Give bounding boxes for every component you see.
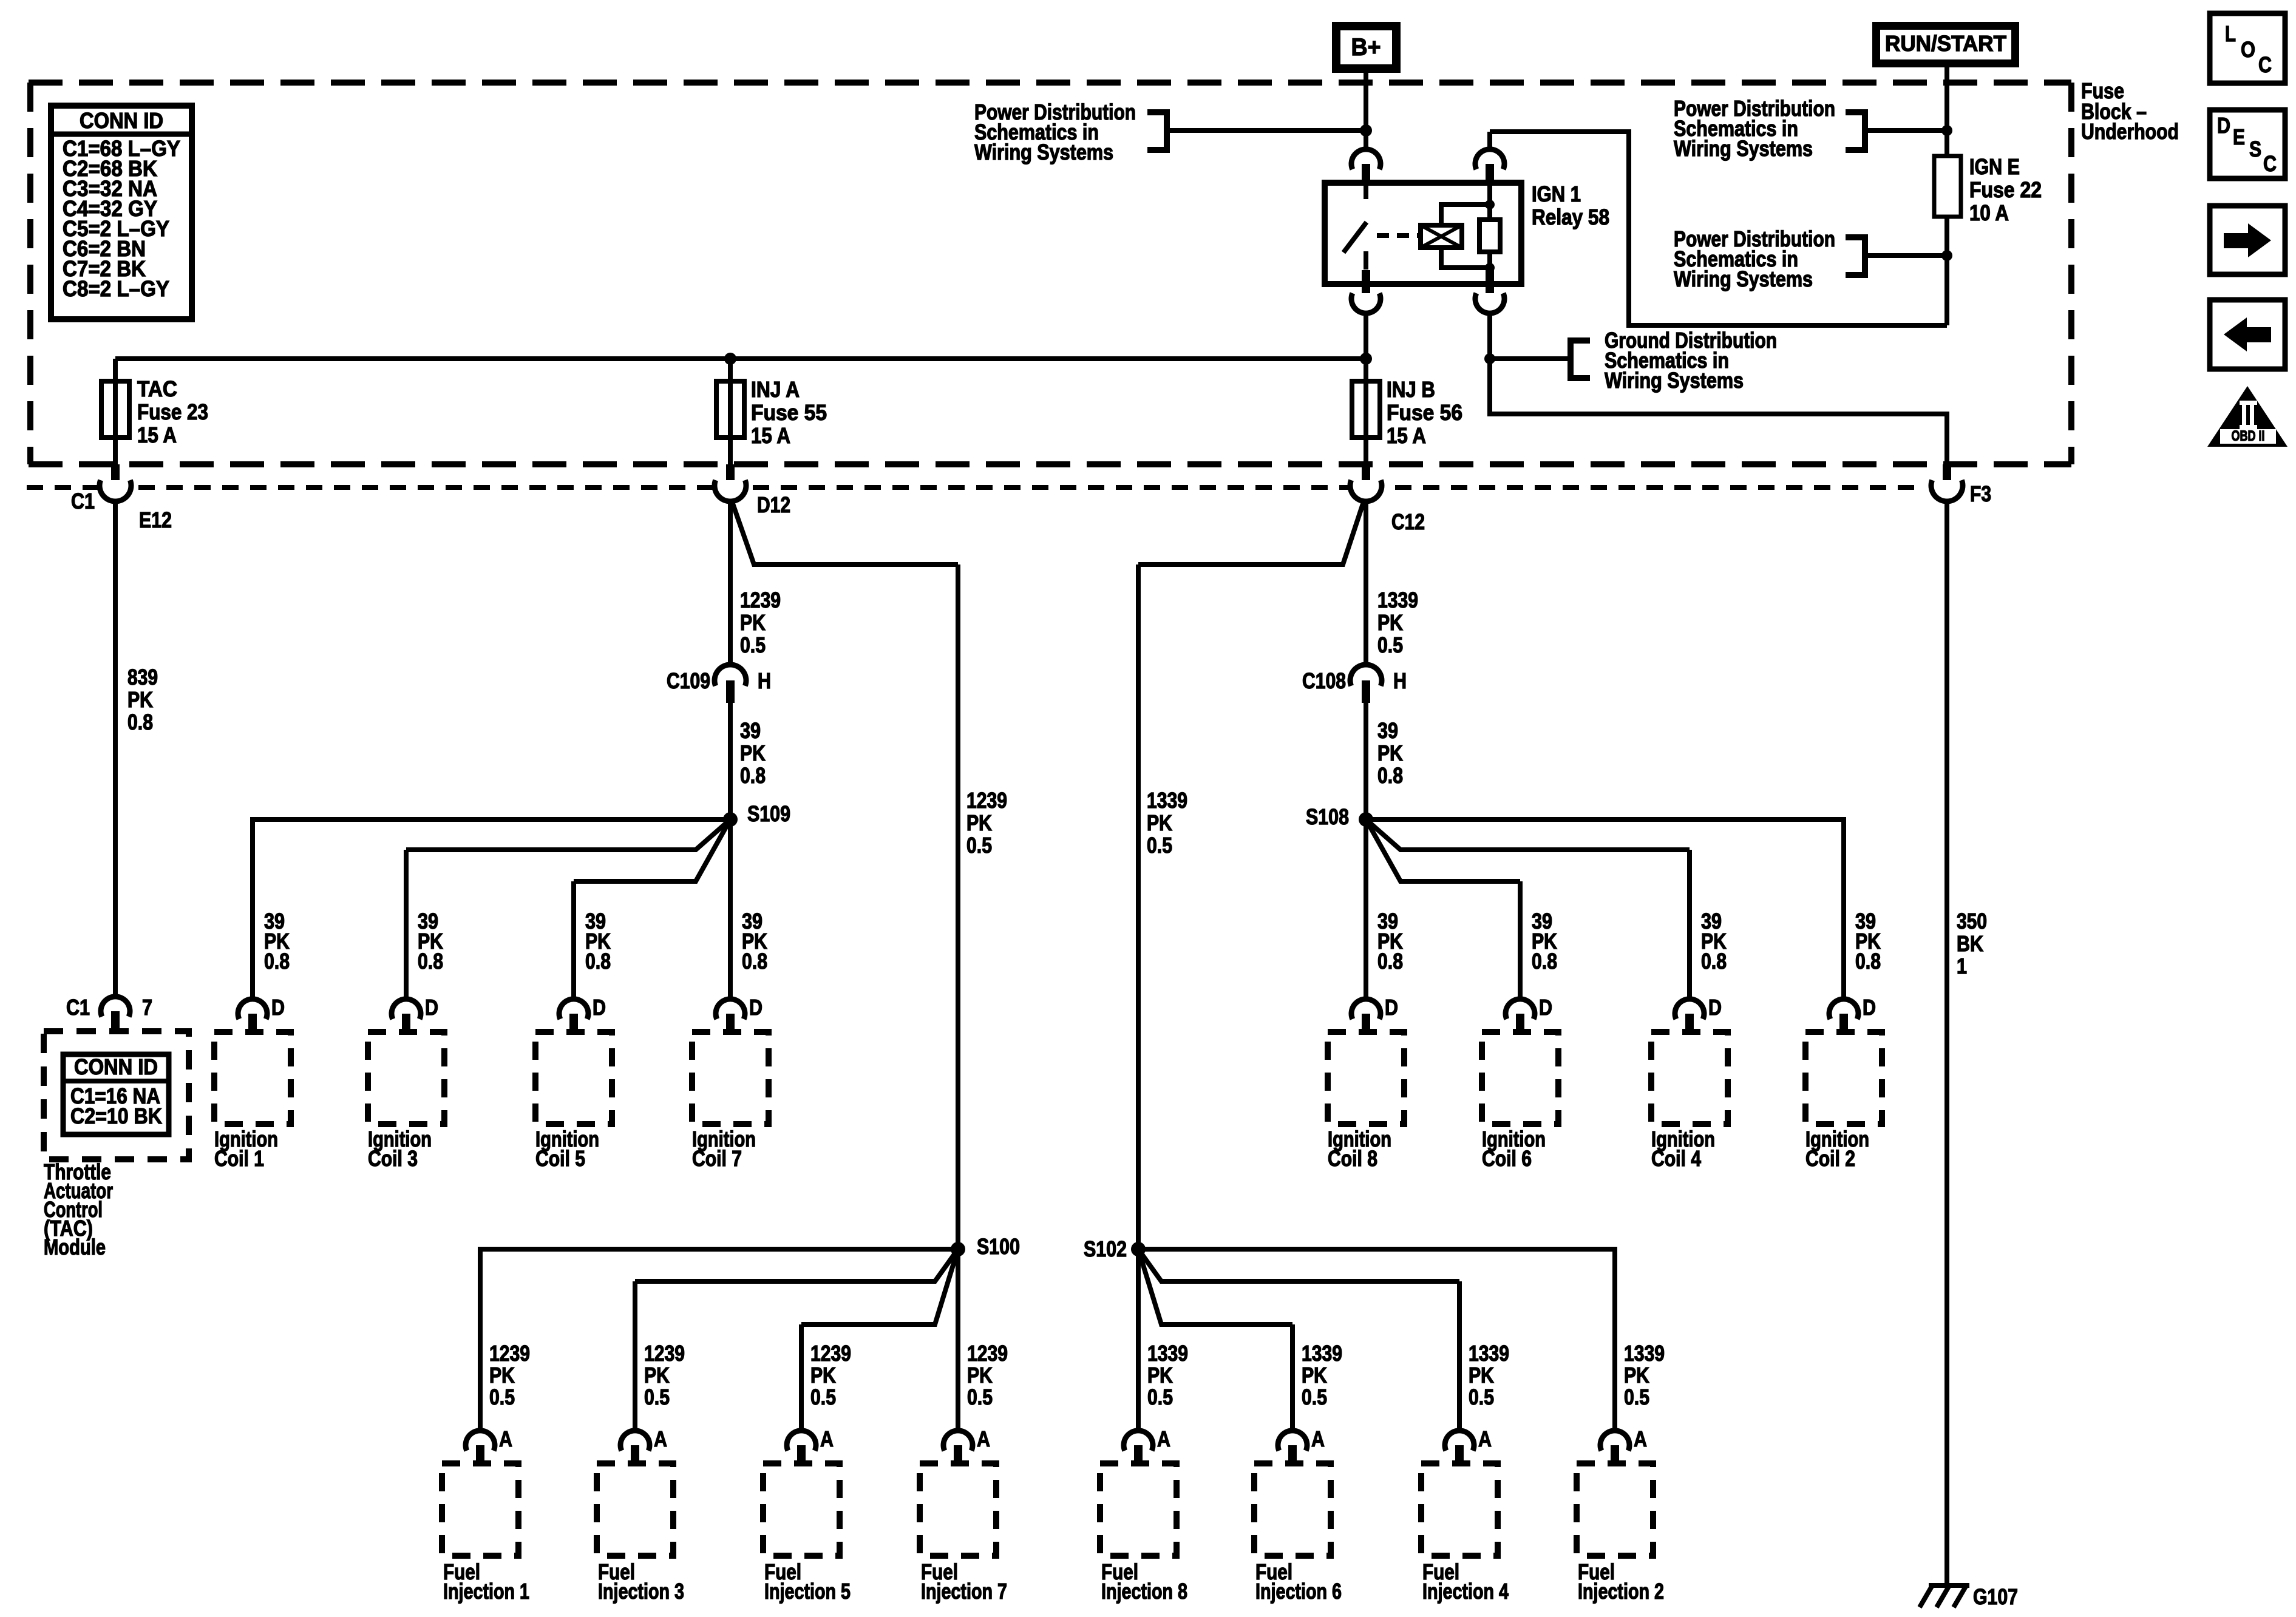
wire: coil parallel connection top [1441,205,1490,225]
svg-text:C1: C1 [66,995,90,1020]
svg-text:Coil 3: Coil 3 [368,1146,418,1171]
connector E12 (C1) at fuse block [111,464,120,486]
ignition coil 7 box [692,1032,769,1124]
label Fuel Injection 1 [443,1559,529,1604]
svg-text:15 A: 15 A [1387,423,1426,448]
connector pin D ignition coil 1 [238,995,285,1033]
ignition coil 2 box [1805,1032,1882,1124]
connector pin A fuel injection 2 [1600,1426,1647,1465]
label Ignition Coil 5 [535,1127,599,1171]
svg-text:Wiring Systems: Wiring Systems [1674,136,1813,161]
ignition coil 3 box [368,1032,444,1124]
splice S100 [951,1242,965,1256]
svg-text:1339: 1339 [1302,1341,1342,1366]
svg-text:0.5: 0.5 [1377,632,1403,657]
CONN ID table (fuse block connectors) [51,106,192,319]
wire: IGN E output loop to relay coil (pin 86) [1490,132,1947,325]
label wire 39 PK 0.8 (ignition coil 7) [742,909,767,974]
svg-text:Fuse 22: Fuse 22 [1969,177,2042,202]
svg-text:G107: G107 [1973,1584,2018,1609]
wire: to ground distribution bracket [1490,356,1571,361]
svg-text:0.5: 0.5 [966,833,992,858]
svg-text:1239: 1239 [644,1341,685,1366]
svg-text:S102: S102 [1084,1236,1127,1261]
svg-text:C12: C12 [1391,509,1425,534]
dotted in-line connector boundary (E12/D12/C12/F3 row) [27,485,1923,490]
connector D12 at fuse block [726,464,735,486]
svg-text:Fuse 23: Fuse 23 [137,399,208,424]
svg-text:Injection 3: Injection 3 [598,1579,684,1604]
wire 1239 PK 0.5 from D12 down to C109 [728,500,733,665]
svg-text:H: H [1393,668,1407,693]
wire: TAC fuse drop [113,359,118,464]
fuel injection 6 box [1254,1463,1331,1556]
ignition coil 8 box [1328,1032,1404,1124]
label wire 39 PK 0.8 (ignition coil 1) [264,909,290,974]
connector pin D ignition coil 4 [1675,995,1722,1033]
label wire 39 PK 0.8 (ignition coil 3) [418,909,443,974]
ignition coil 5 box [535,1032,612,1124]
label wire 39 PK 0.8 (ignition coil 2) [1855,909,1881,974]
connector pin A fuel injection 6 [1278,1426,1325,1465]
svg-text:0.5: 0.5 [810,1385,836,1409]
wire 1339 PK 0.5 from C12 down to C108 [1364,500,1368,665]
svg-text:0.8: 0.8 [1701,949,1727,974]
svg-text:Injection 5: Injection 5 [764,1579,851,1604]
svg-text:Coil 7: Coil 7 [692,1146,742,1171]
svg-text:C1: C1 [71,489,95,514]
label IGN 1 Relay 58 [1532,181,1609,229]
wire: relay coil ground side down [1487,313,1492,359]
off-page reference bracket: Power Distribution (mid right) [1846,237,1865,275]
svg-text:0.8: 0.8 [264,949,290,974]
icon OBD II triangle [2207,386,2288,447]
label wire 1339 PK 0.5 (S102 feed) [1147,788,1187,858]
wire: S109 branch to ignition coil 7 [728,819,733,999]
connector pin A fuel injection 4 [1445,1426,1492,1465]
label wire 39 PK 0.8 (below C108) [1377,718,1403,788]
svg-text:D: D [1708,995,1722,1020]
label Power Distribution Schematics in Wiring Systems (left) [974,100,1136,164]
fuse IGN E Fuse 22 10 A [1934,156,1961,217]
wire: B+ feed down to relay [1364,73,1368,149]
svg-text:C109: C109 [667,668,710,693]
svg-text:1339: 1339 [1469,1341,1509,1366]
svg-text:0.8: 0.8 [1855,949,1881,974]
svg-text:1: 1 [1957,954,1967,978]
svg-text:1239: 1239 [740,588,781,612]
wire 1339 PK 0.5 from C12 to S102 [1138,502,1364,564]
wire: S108 branch to ignition coil 8 [1364,819,1368,999]
relay actuation dashed link [1377,233,1419,238]
svg-text:BK: BK [1957,931,1983,956]
svg-text:A: A [654,1426,667,1451]
svg-text:D: D [1539,995,1552,1020]
label wire 1239 PK 0.5 (S100 feed) [966,788,1007,858]
svg-text:0.5: 0.5 [1469,1385,1494,1409]
label wire 1339 PK 0.5 (fuel injection 2) [1624,1341,1665,1409]
svg-text:Wiring Systems: Wiring Systems [1605,368,1744,393]
svg-text:PK: PK [1377,610,1403,635]
label wire 39 PK 0.8 (ignition coil 6) [1532,909,1557,974]
label TAC Fuse 23 15 A [137,376,208,447]
svg-text:Coil 8: Coil 8 [1328,1146,1377,1171]
svg-text:Module: Module [44,1235,106,1259]
off-page reference bracket: Power Distribution (upper right) [1846,112,1865,150]
off-page reference bracket: Power Distribution (left) [1147,112,1167,150]
wire: S108 branch to ignition coil 4 [1366,819,1690,850]
wire 350 BK 1 from F3 to G107 [1944,500,1949,1585]
svg-text:Fuse 56: Fuse 56 [1387,400,1462,425]
svg-text:PK: PK [1147,810,1172,835]
svg-text:350: 350 [1957,909,1987,934]
relay IGN 1 Relay 58 box [1325,183,1521,284]
svg-text:0.8: 0.8 [740,763,766,788]
svg-text:15 A: 15 A [137,422,177,447]
wire: S109 branch to ignition coil 1 [253,819,730,999]
label Power Distribution Schematics in Wiring Systems (upper right) [1674,96,1835,161]
svg-text:PK: PK [810,1363,836,1388]
svg-text:PK: PK [1302,1363,1327,1388]
node: coil/resistor top junction [1485,200,1495,209]
connector pin A fuel injection 8 [1124,1426,1170,1465]
wire: S109 branch to ignition coil 3 [406,819,730,850]
relay coil symbol (box with X) [1421,225,1462,248]
label Ignition Coil 3 [368,1127,432,1171]
connector C108 pin H [1350,665,1382,686]
label Fuse Block - Underhood [2081,78,2179,144]
svg-text:D: D [271,995,285,1020]
fuel injection 3 box [597,1463,673,1556]
svg-text:Coil 2: Coil 2 [1805,1146,1855,1171]
fuel injection 5 box [763,1463,840,1556]
fuel injection 2 box [1577,1463,1653,1556]
CONN ID table (TAC module) [63,1054,169,1134]
relay pin 87 terminal (bottom left) [1362,270,1370,299]
relay switch contact (fixed, bottom) [1364,251,1368,269]
label Fuel Injection 2 [1578,1559,1664,1604]
svg-text:IGN E: IGN E [1969,154,2020,179]
svg-text:PK: PK [740,741,766,765]
svg-text:15 A: 15 A [751,423,790,448]
svg-text:A: A [1634,1426,1647,1451]
svg-text:Coil 5: Coil 5 [535,1146,585,1171]
svg-text:0.8: 0.8 [1532,949,1557,974]
svg-text:C108: C108 [1302,668,1346,693]
svg-text:0.8: 0.8 [1377,763,1403,788]
label Ground Distribution Schematics in Wiring Systems [1605,328,1777,393]
wire: S100 branch to fuel injection 3 [635,1249,958,1281]
svg-text:1339: 1339 [1147,788,1187,813]
wire: relay ground side over to F3 [1490,359,1947,466]
svg-text:PK: PK [127,687,153,712]
svg-text:INJ B: INJ B [1387,377,1435,402]
label Fuel Injection 4 [1422,1559,1509,1604]
wire 1239 PK 0.5 from D12 to S100 [732,502,958,564]
relay pin 30 terminal (top left) [1351,149,1381,169]
relay pin 86 terminal (top right) [1475,149,1504,169]
svg-text:10 A: 10 A [1969,200,2009,225]
svg-text:0.8: 0.8 [1377,949,1403,974]
label wire 1339 PK 0.5 (fuel injection 6) [1302,1341,1342,1409]
relay pin 85 terminal (bottom right) [1486,270,1494,299]
node: bus junction at INJ B [1360,353,1372,365]
svg-text:0.5: 0.5 [1147,1385,1173,1409]
node: junction B+ / power distribution [1360,124,1372,137]
node: junction ground distribution [1484,353,1495,364]
label IGN E Fuse 22 10 A [1969,154,2042,225]
svg-text:0.5: 0.5 [1147,833,1172,858]
wire: power distribution (mid right) to IGN E output [1865,253,1947,258]
fuse TAC Fuse 23 15 A [101,381,129,438]
ignition coil 6 box [1482,1032,1558,1124]
svg-text:1339: 1339 [1377,588,1418,612]
connector pin D ignition coil 6 [1506,995,1552,1033]
svg-text:7: 7 [142,995,152,1020]
svg-text:Relay 58: Relay 58 [1532,205,1609,229]
svg-text:Injection 1: Injection 1 [443,1579,529,1604]
wire: S102 branch to fuel injection 4 [1138,1249,1459,1281]
label Fuel Injection 7 [921,1559,1007,1604]
svg-text:PK: PK [644,1363,670,1388]
label Power Distribution Schematics in Wiring Systems (mid right) [1674,226,1835,291]
label wire 1239 PK 0.5 (fuel injection 7) [967,1341,1008,1409]
svg-text:O: O [2241,37,2255,62]
splice S102 [1131,1242,1146,1256]
label wire 1339 PK 0.5 (fuel injection 8) [1147,1341,1188,1409]
svg-text:1239: 1239 [967,1341,1008,1366]
relay switch blade [1343,222,1367,253]
ignition coil 1 box [214,1032,291,1124]
wire: INJ B fuse drop [1364,359,1368,464]
svg-text:CONN ID: CONN ID [74,1054,158,1079]
svg-text:Fuse 55: Fuse 55 [751,400,827,425]
TAC module dashed box [44,1031,189,1159]
connector C1 pin 7 at TAC module [101,997,130,1017]
icon forward arrow box [2210,206,2285,274]
wire: S100 branch to fuel injection 1 [480,1249,958,1431]
svg-text:0.8: 0.8 [127,710,153,734]
power symbol RUN/START [1872,22,2019,67]
fuse INJ A Fuse 55 15 A [716,381,744,438]
node: coil/resistor bottom junction [1485,263,1495,273]
wire: S102 branch to fuel injection 2 [1138,1249,1615,1431]
svg-text:D: D [1863,995,1876,1020]
svg-text:839: 839 [127,665,158,690]
label wire 1339 PK 0.5 (below C12) [1377,588,1418,657]
svg-text:Injection 7: Injection 7 [921,1579,1007,1604]
node: junction RUN/START / power distribution upper [1941,125,1952,136]
label wire 39 PK 0.8 (ignition coil 8) [1377,909,1403,974]
wire: S100 branch to fuel injection 7 [956,1249,960,1431]
label wire 1239 PK 0.5 (fuel injection 3) [644,1341,685,1409]
svg-text:A: A [1478,1426,1492,1451]
svg-text:D: D [1385,995,1398,1020]
fuel injection 7 box [920,1463,996,1556]
wire: power distribution (upper right) to RUN/START wire [1865,128,1947,133]
wire: relay switch output down to fuse bus [1364,313,1368,359]
svg-text:C2=10 BK: C2=10 BK [70,1103,162,1128]
svg-text:A: A [1157,1426,1170,1451]
svg-text:E12: E12 [139,507,172,532]
relay resistor element [1487,183,1492,220]
label Ignition Coil 1 [214,1127,278,1171]
svg-text:0.8: 0.8 [742,949,767,974]
label Ignition Coil 2 [1805,1127,1869,1171]
connector F3 at fuse block [1943,464,1951,486]
svg-text:A: A [1311,1426,1325,1451]
svg-text:S: S [2249,137,2261,161]
svg-text:OBD II: OBD II [2232,428,2265,444]
label wire 39 PK 0.8 (below C109) [740,718,766,788]
connector pin D ignition coil 3 [392,995,438,1033]
wire: RUN/START feed down through IGN E fuse [1944,67,1949,156]
svg-text:PK: PK [1624,1363,1649,1388]
splice S108 [1359,812,1373,827]
svg-text:F3: F3 [1970,481,1991,506]
svg-text:1239: 1239 [966,788,1007,813]
svg-text:PK: PK [1469,1363,1494,1388]
svg-text:B+: B+ [1351,34,1381,61]
label Fuel Injection 6 [1255,1559,1342,1604]
icon LOC box [2210,13,2285,83]
svg-text:0.8: 0.8 [418,949,443,974]
wire: power distribution (left) to B+ wire [1167,128,1366,133]
svg-text:PK: PK [1147,1363,1173,1388]
wire: coil parallel connection bottom [1441,248,1490,268]
wire: S108 branch to ignition coil 2 [1366,819,1844,999]
svg-text:1339: 1339 [1147,1341,1188,1366]
wire 39 PK 0.8 from C109 to S109 [728,703,733,819]
node: junction IGN E output / power distribution lower [1941,250,1952,261]
connector pin D ignition coil 8 [1351,995,1398,1033]
label Ignition Coil 6 [1482,1127,1546,1171]
svg-text:Injection 2: Injection 2 [1578,1579,1664,1604]
wire: S109 branch to ignition coil 5 [574,819,730,881]
connector pin D ignition coil 2 [1829,995,1876,1033]
icon back arrow box [2210,300,2285,369]
svg-text:PK: PK [740,610,766,635]
wire: S100 branch to fuel injection 5 [801,1249,958,1324]
svg-text:0.5: 0.5 [489,1385,515,1409]
icon DESC box [2210,110,2285,178]
wire 39 PK 0.8 from C108 to S108 [1364,703,1368,819]
fuse INJ B Fuse 56 15 A [1352,381,1380,438]
svg-text:Injection 6: Injection 6 [1255,1579,1342,1604]
svg-text:PK: PK [489,1363,515,1388]
connector C12 at fuse block [1362,464,1370,486]
svg-text:INJ A: INJ A [751,377,800,402]
svg-text:PK: PK [966,810,992,835]
wire: S102 branch to fuel injection 8 [1136,1249,1141,1431]
wire: S102 branch to fuel injection 6 [1138,1249,1292,1324]
svg-text:Injection 8: Injection 8 [1101,1579,1187,1604]
svg-text:D12: D12 [757,492,790,517]
fuse block underhood dashed border [29,83,2071,464]
wire: fuse supply bus [115,356,1366,361]
svg-text:D: D [749,995,763,1020]
label wire 39 PK 0.8 (ignition coil 5) [585,909,611,974]
relay switch contact (fixed, top) [1364,183,1368,199]
svg-text:Wiring Systems: Wiring Systems [974,140,1113,164]
svg-text:0.5: 0.5 [740,632,766,657]
label wire 1239 PK 0.5 (fuel injection 5) [810,1341,851,1409]
connector pin A fuel injection 1 [466,1426,512,1465]
svg-text:S109: S109 [747,801,790,826]
connector pin A fuel injection 5 [787,1426,834,1465]
svg-text:PK: PK [1377,741,1403,765]
svg-text:CONN ID: CONN ID [80,108,163,133]
off-page reference bracket: Ground Distribution [1571,341,1590,378]
ground G107 [1920,1584,2018,1609]
label INJ B Fuse 56 15 A [1387,377,1462,448]
svg-text:0.5: 0.5 [644,1385,670,1409]
power symbol B+ [1332,22,1401,73]
svg-text:0.5: 0.5 [967,1385,993,1409]
svg-text:0.5: 0.5 [1302,1385,1327,1409]
label Throttle Actuator Control (TAC) Module [44,1159,113,1259]
fuel injection 8 box [1100,1463,1177,1556]
svg-text:RUN/START: RUN/START [1885,31,2006,56]
wire: INJ A fuse drop [728,359,733,464]
svg-text:C8=2 L–GY: C8=2 L–GY [63,276,169,301]
label wire 1339 PK 0.5 (fuel injection 4) [1469,1341,1509,1409]
svg-text:D: D [2217,113,2230,138]
svg-text:PK: PK [967,1363,993,1388]
splice S109 [723,812,738,827]
svg-text:Coil 1: Coil 1 [214,1146,264,1171]
svg-text:0.8: 0.8 [585,949,611,974]
connector pin D ignition coil 7 [716,995,763,1033]
ignition coil 4 box [1651,1032,1728,1124]
svg-text:39: 39 [740,718,761,743]
svg-text:A: A [977,1426,990,1451]
node: bus junction at INJ A [724,353,736,365]
svg-text:TAC: TAC [137,376,177,401]
svg-text:L: L [2225,21,2236,46]
label wire 1239 PK 0.5 (fuel injection 1) [489,1341,530,1409]
svg-text:A: A [820,1426,834,1451]
fuel injection 1 box [442,1463,518,1556]
svg-text:Wiring Systems: Wiring Systems [1674,266,1813,291]
label wire 39 PK 0.8 (ignition coil 4) [1701,909,1727,974]
svg-text:0.5: 0.5 [1624,1385,1649,1409]
svg-text:39: 39 [1377,718,1398,743]
connector C109 pin H [715,665,746,686]
svg-text:1239: 1239 [489,1341,530,1366]
svg-text:IGN 1: IGN 1 [1532,181,1581,206]
connector pin A fuel injection 7 [943,1426,990,1465]
svg-text:S100: S100 [977,1234,1020,1259]
svg-text:Injection 4: Injection 4 [1422,1579,1509,1604]
connector pin D ignition coil 5 [559,995,606,1033]
svg-text:C: C [2263,151,2277,176]
wire: S108 branch to ignition coil 6 [1366,819,1520,881]
label Ignition Coil 7 [692,1127,756,1171]
label wire 1239 PK 0.5 (below D12) [740,588,781,657]
svg-text:E: E [2233,124,2245,149]
svg-text:Coil 4: Coil 4 [1651,1146,1701,1171]
label wire 839 PK 0.8 [127,665,158,734]
label Ignition Coil 4 [1651,1127,1715,1171]
svg-text:C: C [2258,52,2272,77]
svg-text:H: H [758,668,771,693]
label INJ A Fuse 55 15 A [751,377,827,448]
svg-text:1339: 1339 [1624,1341,1665,1366]
label wire 350 BK 1 [1957,909,1987,978]
fuel injection 4 box [1421,1463,1498,1556]
svg-text:A: A [499,1426,512,1451]
